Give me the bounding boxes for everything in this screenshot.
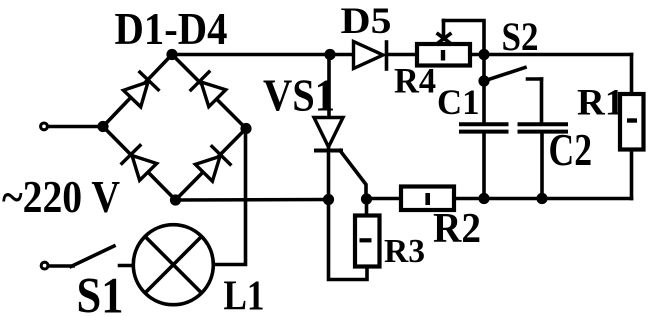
svg-text:S2: S2 [502,14,539,59]
svg-text:D1-D4: D1-D4 [115,3,228,54]
svg-text:C1: C1 [437,82,480,122]
svg-text:C2: C2 [549,125,593,175]
svg-text:L1: L1 [224,273,265,317]
svg-text:S1: S1 [77,269,124,317]
svg-text:~220 V: ~220 V [2,172,120,222]
svg-text:R1: R1 [577,83,624,124]
svg-text:R3: R3 [384,233,425,270]
svg-text:VS1: VS1 [263,70,335,121]
svg-text:R4: R4 [394,61,436,101]
svg-text:R2: R2 [433,206,481,252]
svg-text:D5: D5 [341,1,392,42]
